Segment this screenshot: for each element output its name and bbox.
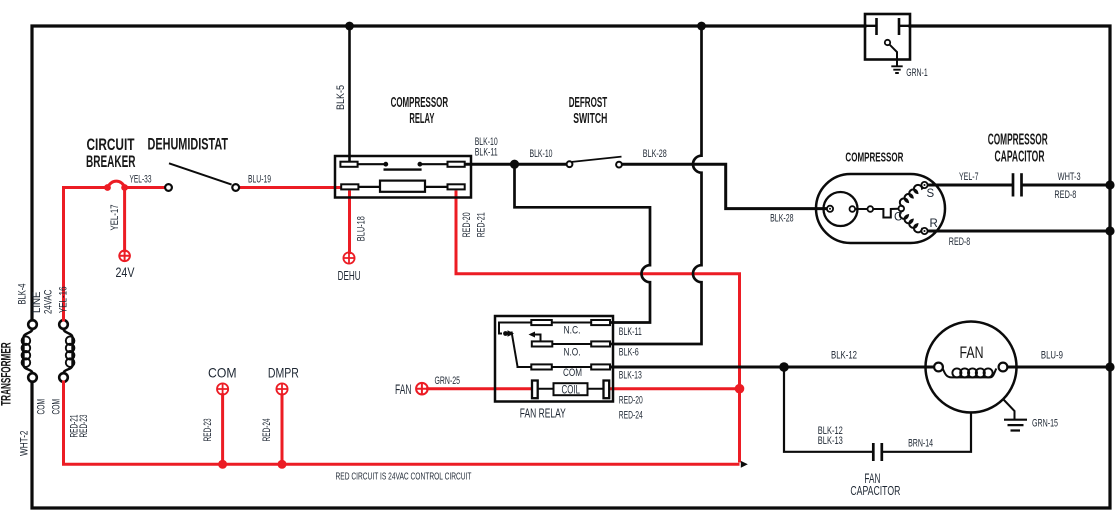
svg-text:BLK-13: BLK-13 xyxy=(818,435,843,447)
svg-text:COMPRESSOR: COMPRESSOR xyxy=(988,132,1048,149)
svg-text:RED-23: RED-23 xyxy=(202,418,214,441)
svg-text:24VAC: 24VAC xyxy=(43,289,55,314)
svg-text:RED-24: RED-24 xyxy=(261,418,273,441)
svg-text:BLK-28: BLK-28 xyxy=(643,148,667,160)
svg-text:DEHU: DEHU xyxy=(338,269,361,283)
svg-text:BLK-12: BLK-12 xyxy=(831,350,857,362)
svg-text:YEL-16: YEL-16 xyxy=(58,287,70,314)
svg-text:DEHUMIDISTAT: DEHUMIDISTAT xyxy=(148,136,229,154)
svg-text:C: C xyxy=(894,212,902,224)
svg-text:RED-24: RED-24 xyxy=(619,410,643,422)
svg-text:WHT-3: WHT-3 xyxy=(1058,171,1081,183)
svg-text:COIL: COIL xyxy=(562,382,581,396)
svg-text:COM: COM xyxy=(208,365,237,381)
svg-text:BLK-13: BLK-13 xyxy=(619,369,642,381)
svg-text:YEL-7: YEL-7 xyxy=(959,171,979,183)
svg-text:S: S xyxy=(927,188,935,200)
svg-text:BLK-11: BLK-11 xyxy=(619,326,642,338)
svg-text:BREAKER: BREAKER xyxy=(86,153,136,171)
svg-text:RED-8: RED-8 xyxy=(1054,189,1076,201)
svg-text:BLK-5: BLK-5 xyxy=(335,85,347,110)
svg-text:RED-20: RED-20 xyxy=(619,395,643,407)
svg-text:GRN-25: GRN-25 xyxy=(435,375,461,387)
svg-text:RED-23: RED-23 xyxy=(78,415,90,438)
svg-text:BLU-9: BLU-9 xyxy=(1041,350,1063,362)
svg-text:FAN: FAN xyxy=(395,382,412,397)
svg-text:YEL-33: YEL-33 xyxy=(130,174,152,186)
svg-text:BLU-19: BLU-19 xyxy=(248,174,271,186)
svg-text:FAN: FAN xyxy=(960,344,984,362)
svg-text:COM: COM xyxy=(563,367,582,379)
svg-text:COM: COM xyxy=(51,399,63,415)
svg-text:FAN RELAY: FAN RELAY xyxy=(520,407,566,421)
svg-text:N.O.: N.O. xyxy=(564,346,581,358)
svg-text:BRN-14: BRN-14 xyxy=(908,437,933,449)
svg-text:SWITCH: SWITCH xyxy=(573,111,607,127)
svg-text:CIRCUIT: CIRCUIT xyxy=(87,136,135,154)
svg-text:24V: 24V xyxy=(116,265,135,280)
svg-text:RED-21: RED-21 xyxy=(475,212,487,237)
svg-text:DEFROST: DEFROST xyxy=(569,95,608,111)
svg-text:LINE: LINE xyxy=(31,292,43,314)
svg-text:DMPR: DMPR xyxy=(268,365,299,381)
svg-text:BLK-11: BLK-11 xyxy=(475,147,498,159)
svg-text:BLK-4: BLK-4 xyxy=(17,284,29,305)
svg-text:GRN-1: GRN-1 xyxy=(906,67,928,79)
svg-text:BLK-28: BLK-28 xyxy=(770,213,794,225)
svg-text:R: R xyxy=(930,218,938,230)
svg-text:COMPRESSOR: COMPRESSOR xyxy=(391,95,449,111)
svg-text:RED-20: RED-20 xyxy=(461,212,473,237)
svg-text:COMPRESSOR: COMPRESSOR xyxy=(845,150,903,165)
svg-text:BLU-18: BLU-18 xyxy=(356,216,368,241)
svg-text:BLK-10: BLK-10 xyxy=(530,148,553,160)
svg-text:RELAY: RELAY xyxy=(409,111,434,127)
svg-text:TRANSFORMER: TRANSFORMER xyxy=(0,342,14,406)
svg-text:CAPACITOR: CAPACITOR xyxy=(850,483,900,498)
svg-text:WHT-2: WHT-2 xyxy=(19,431,31,457)
svg-text:YEL-17: YEL-17 xyxy=(109,205,121,231)
svg-text:CAPACITOR: CAPACITOR xyxy=(995,149,1045,166)
svg-text:RED-8: RED-8 xyxy=(949,236,971,248)
svg-text:RED CIRCUIT IS 24VAC CONTROL C: RED CIRCUIT IS 24VAC CONTROL CIRCUIT xyxy=(336,471,472,483)
svg-text:N.C.: N.C. xyxy=(564,325,581,337)
svg-text:COM: COM xyxy=(36,399,48,415)
svg-text:GRN-15: GRN-15 xyxy=(1032,418,1058,430)
svg-text:BLK-6: BLK-6 xyxy=(619,346,639,358)
